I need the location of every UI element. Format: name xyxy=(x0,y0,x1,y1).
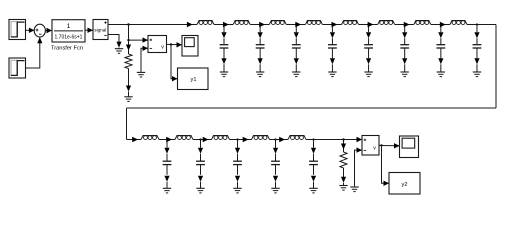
wire C5 to ground xyxy=(366,48,371,72)
node B6 junction to R2 xyxy=(342,138,344,140)
inductor L11 xyxy=(212,136,230,140)
wire R2 to ground xyxy=(341,168,346,185)
node N1 tap to voltmeter xyxy=(127,39,129,41)
ground GB5 xyxy=(309,188,317,193)
sum junction S1 xyxy=(34,24,45,37)
wire C6 to ground xyxy=(402,48,407,72)
wire C8 to ground xyxy=(474,48,479,72)
inductor L8 xyxy=(450,21,467,25)
wire voltmeter U4 output xyxy=(379,143,400,148)
inductor L4 xyxy=(305,21,322,25)
wire bottom bus segments xyxy=(127,139,363,141)
wire ground to voltmeter minus xyxy=(141,46,148,73)
scope SC1 xyxy=(182,36,198,57)
wire source minus to ground xyxy=(108,35,122,49)
node T8 xyxy=(476,23,478,25)
wire arrow into L1 xyxy=(187,22,193,27)
svg-text:1: 1 xyxy=(67,23,71,30)
transfer function block U1 xyxy=(52,20,85,42)
capacitor C7 xyxy=(436,45,445,48)
wire line end corner down xyxy=(495,25,497,109)
ground GT7 xyxy=(437,72,445,77)
voltage measurement U4 xyxy=(362,136,379,156)
ground GT2 xyxy=(256,72,264,77)
step source block 1 xyxy=(9,20,26,40)
wire arrow into L2 xyxy=(223,22,229,27)
wire branch T7 down xyxy=(438,25,443,45)
inductor L5 xyxy=(342,21,359,25)
wire return down to second line xyxy=(126,108,128,140)
svg-text:Transfer Fcn: Transfer Fcn xyxy=(51,45,83,51)
wire arrow into L12 xyxy=(243,137,249,142)
wire arrow into L7 xyxy=(404,22,410,27)
wire arrow into L9 xyxy=(132,137,138,142)
wire C10 to ground xyxy=(198,165,203,189)
inductor L13 xyxy=(288,136,306,140)
capacitor C10 xyxy=(196,161,205,164)
wire arrow into L3 xyxy=(259,22,265,27)
inductor L1 xyxy=(197,21,214,25)
node B5 xyxy=(312,138,314,140)
wire C9 to ground xyxy=(164,165,169,189)
ground G4 xyxy=(339,186,347,191)
node B3 xyxy=(236,138,238,140)
capacitor C12 xyxy=(271,161,280,164)
wire step2 to sum (right then up) xyxy=(26,37,43,68)
wire arrow into L4 xyxy=(295,22,301,27)
wire to y2 xyxy=(382,145,390,186)
wire voltmeter U3 output xyxy=(167,42,183,47)
svg-text:1.701e-6s+1: 1.701e-6s+1 xyxy=(55,35,83,41)
wire branch T4 down xyxy=(330,25,335,45)
ground GT5 xyxy=(364,72,372,77)
node T1 xyxy=(223,23,225,25)
scope SC2 xyxy=(400,136,419,158)
svg-text:y1: y1 xyxy=(191,77,197,83)
inductor L7 xyxy=(414,21,431,25)
node T7 xyxy=(440,23,442,25)
wire branch B4 down xyxy=(273,140,278,162)
ground GT3 xyxy=(292,72,300,77)
wire branch B5 down xyxy=(311,140,316,162)
wire C7 to ground xyxy=(438,48,443,72)
wire C3 to ground xyxy=(294,48,299,72)
wire C2 to ground xyxy=(258,48,263,72)
wire ground to voltmeter U4 minus xyxy=(355,147,363,186)
capacitor C2 xyxy=(256,45,265,48)
ground G5 xyxy=(350,187,358,192)
inductor L3 xyxy=(269,21,286,25)
svg-text:v: v xyxy=(373,146,376,152)
resistor R2 xyxy=(340,152,347,168)
capacitor C6 xyxy=(400,45,409,48)
node N0 junction to R1 xyxy=(127,23,129,25)
node T6 xyxy=(404,23,406,25)
capacitor C8 xyxy=(473,45,482,48)
wire branch T2 down xyxy=(258,25,263,45)
wire tap to voltmeter plus xyxy=(129,37,149,42)
wire R1 to ground xyxy=(126,69,131,97)
inductor L6 xyxy=(378,21,395,25)
wire arrow into L5 xyxy=(331,22,337,27)
node T5 xyxy=(367,23,369,25)
capacitor C13 xyxy=(309,161,318,164)
step source block 2 xyxy=(9,58,26,78)
resistor R1 branch wire xyxy=(126,25,131,55)
ground GB4 xyxy=(271,188,279,193)
wire branch B1 down xyxy=(164,140,169,162)
capacitor C9 xyxy=(163,161,172,164)
wire branch B3 down xyxy=(235,140,240,162)
capacitor C3 xyxy=(292,45,301,48)
capacitor C5 xyxy=(364,45,373,48)
capacitor C1 xyxy=(220,45,229,48)
wire branch T8 down xyxy=(474,25,479,45)
svg-text:signal: signal xyxy=(94,27,106,32)
wire return bus right to left xyxy=(127,107,497,109)
ground GT1 xyxy=(220,72,228,77)
ground GT6 xyxy=(401,72,409,77)
inductor L10 xyxy=(175,136,193,140)
wire arrow into L13 xyxy=(279,137,285,142)
inductor L12 xyxy=(252,136,270,140)
wire C4 to ground xyxy=(330,48,335,72)
wire sum to transfer fcn xyxy=(45,28,52,33)
node B4 xyxy=(274,138,276,140)
wire branch T6 down xyxy=(402,25,407,45)
wire top bus segments (source plus terminal to line end) xyxy=(108,24,496,26)
wire arrow into L11 xyxy=(203,137,209,142)
capacitor C11 xyxy=(233,161,242,164)
wire arrow into L10 xyxy=(166,137,172,142)
wire to y1 xyxy=(171,45,178,82)
resistor R1 xyxy=(125,54,132,69)
wire transfer fcn to controlled source xyxy=(85,28,93,33)
ground GT4 xyxy=(328,72,336,77)
node T2 xyxy=(259,23,261,25)
wire arrow into L8 xyxy=(440,22,446,27)
ground G1 xyxy=(115,49,123,54)
wire branch T3 down xyxy=(294,25,299,45)
label Transfer Fcn xyxy=(51,45,83,51)
wire branch T5 down xyxy=(366,25,371,45)
ground G3 xyxy=(137,72,145,77)
wire C11 to ground xyxy=(235,165,240,189)
node B2 xyxy=(199,138,201,140)
node T3 xyxy=(295,23,297,25)
output block y2 xyxy=(389,173,420,195)
wire arrow into L6 xyxy=(368,22,374,27)
ground G2 xyxy=(124,97,132,102)
wire branch T1 down xyxy=(221,25,226,45)
node T4 xyxy=(331,23,333,25)
wire C1 to ground xyxy=(221,48,226,72)
voltage measurement U3 xyxy=(148,36,167,53)
wire C13 to ground xyxy=(311,165,316,189)
capacitor C4 xyxy=(328,45,337,48)
wire branch B2 down xyxy=(198,140,203,162)
wire arrow into voltmeter U4 plus xyxy=(357,137,363,142)
ground GB1 xyxy=(163,188,171,193)
controlled voltage source U2 (signal) xyxy=(93,20,108,40)
ground GB2 xyxy=(196,188,204,193)
resistor R2 branch wire xyxy=(341,140,346,153)
node B1 xyxy=(166,138,168,140)
wire step1 to sum xyxy=(26,28,35,33)
wire C12 to ground xyxy=(273,165,278,189)
ground GB3 xyxy=(233,188,241,193)
inductor L9 xyxy=(141,136,159,140)
output block y1 xyxy=(178,68,209,90)
inductor L2 xyxy=(233,21,250,25)
svg-text:y2: y2 xyxy=(402,182,408,188)
svg-text:v: v xyxy=(161,45,164,51)
ground GT8 xyxy=(473,72,481,77)
